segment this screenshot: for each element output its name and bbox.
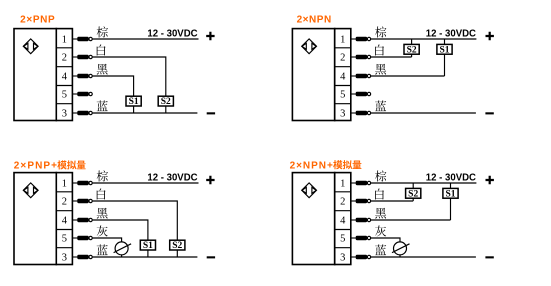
PNP2A proximity-sensor diamond symbol [23, 183, 38, 198]
PNP2A wire label white 白 [97, 189, 106, 200]
PNP2 wire label blue 蓝 [97, 100, 108, 111]
svg-text:S2: S2 [408, 189, 418, 199]
NPN2A pin 2 terminal stub [351, 199, 371, 203]
PNP2A pin cell divider 1 [56, 191, 72, 193]
NPN2A blue wire (pin 3 to −) [371, 256, 476, 258]
PNP2 brown wire (pin 1 to +) [93, 38, 199, 40]
NPN2A analog symbol to blue rail wire [399, 255, 401, 257]
NPN2A pin cell divider 1 [335, 191, 351, 193]
PNP2A wire label black 黑 [97, 208, 108, 219]
NPN2 wire label white 白 [375, 45, 384, 56]
svg-text:1: 1 [62, 179, 67, 190]
PNP2A pin 1 terminal stub [72, 181, 92, 185]
NPN2A load S1 box [443, 188, 458, 199]
NPN2A white wire (pin 2 to S2) [371, 200, 413, 202]
PNP2A wire label brown 棕 [97, 170, 108, 181]
svg-text:S1: S1 [143, 241, 153, 251]
NPN2 supply − terminal [485, 112, 493, 114]
PNP2 pin cell divider 2 [56, 66, 72, 68]
PNP2 black wire (pin 4 to S1) [93, 76, 134, 96]
svg-text:5: 5 [340, 90, 345, 101]
NPN2 sensor body outline [292, 29, 334, 121]
svg-text:4: 4 [62, 216, 68, 227]
NPN2 black wire (pin 4 to S1) [371, 75, 445, 77]
PNP2A black wire (pin 4 to S1) [93, 220, 148, 240]
NPN2A wire label black 黑 [375, 208, 386, 219]
svg-text:1: 1 [340, 35, 345, 46]
svg-text:S1: S1 [129, 97, 139, 107]
PNP2A analog output symbol [114, 242, 132, 255]
svg-text:2: 2 [340, 197, 345, 208]
svg-text:S1: S1 [445, 189, 455, 199]
PNP2 load S1 box [126, 96, 141, 107]
PNP2 S2 to blue rail wire [165, 106, 167, 113]
PNP2A wire label gray 灰 [97, 226, 108, 237]
NPN2A + rail to S2 wire [412, 183, 414, 188]
NPN2 load S2 box [404, 44, 419, 55]
PNP2 pin cell divider 3 [56, 85, 72, 87]
NPN2A pin cell divider 4 [335, 247, 351, 249]
NPN2A S2 to white wire [412, 198, 414, 201]
svg-text:4: 4 [62, 72, 68, 83]
PNP2A load S2 box [170, 240, 185, 251]
svg-text:1: 1 [62, 35, 67, 46]
PNP2A load S1 box [140, 240, 155, 251]
svg-text:12 - 30VDC: 12 - 30VDC [426, 172, 476, 183]
NPN2A supply + terminal [486, 176, 494, 184]
NPN2 S2 to white wire [411, 54, 413, 57]
NPN2 pin 4 terminal stub [351, 74, 371, 78]
PNP2A wire label blue 蓝 [97, 244, 108, 255]
NPN2 S1 to black wire [444, 54, 446, 76]
svg-text:4: 4 [340, 216, 346, 227]
NPN2 pin 3 terminal stub [351, 111, 371, 115]
PNP2 proximity-sensor diamond symbol [23, 39, 38, 54]
NPN2A wire label blue 蓝 [375, 244, 386, 255]
NPN2 pin 5 terminal stub [351, 92, 371, 96]
PNP2 wire label brown 棕 [97, 26, 108, 37]
NPN2 pin cell divider 4 [335, 103, 351, 105]
PNP2A gray wire (pin 5 to analog output) [93, 238, 122, 242]
NPN2 brown wire (pin 1 to +) [371, 38, 476, 40]
NPN2 wire label blue 蓝 [375, 100, 386, 111]
PNP2A white wire (pin 2 to S2) [93, 201, 178, 240]
NPN2A sensor body outline [292, 173, 334, 265]
PNP2 sensor body outline [14, 29, 56, 121]
svg-text:5: 5 [62, 234, 67, 245]
NPN2 pin 2 terminal stub [351, 55, 371, 59]
svg-text:2×NPN+: 2×NPN+ [290, 160, 333, 171]
NPN2A pin 4 terminal stub [351, 218, 371, 222]
svg-text:3: 3 [62, 109, 67, 120]
NPN2 wire label black 黑 [375, 64, 386, 75]
PNP2 pin 3 terminal stub [72, 111, 92, 115]
NPN2A brown wire (pin 1 to +) [371, 182, 476, 184]
NPN2A title 模拟量 (analog) [333, 160, 361, 169]
svg-text:12 - 30VDC: 12 - 30VDC [426, 28, 476, 39]
NPN2 + rail to S1 wire [444, 39, 446, 44]
NPN2A pin 5 terminal stub [351, 236, 371, 240]
svg-text:S2: S2 [407, 45, 417, 55]
svg-text:1: 1 [340, 179, 345, 190]
PNP2 wire label white 白 [97, 45, 106, 56]
NPN2A wire label white 白 [375, 189, 384, 200]
NPN2 pin cell divider 1 [335, 47, 351, 49]
PNP2A pin 2 terminal stub [72, 199, 92, 203]
NPN2A load S2 box [406, 188, 421, 199]
svg-text:2×PNP: 2×PNP [20, 15, 55, 26]
PNP2A supply − terminal [207, 256, 215, 258]
PNP2A pin cell divider 2 [56, 210, 72, 212]
svg-text:12 - 30VDC: 12 - 30VDC [147, 28, 197, 39]
PNP2 wire label black 黑 [97, 64, 108, 75]
NPN2A + rail to S1 wire [450, 183, 452, 188]
svg-text:12 - 30VDC: 12 - 30VDC [147, 172, 197, 183]
PNP2 supply + terminal [206, 32, 214, 40]
NPN2A wire label brown 棕 [375, 170, 386, 181]
PNP2A sensor body outline [14, 173, 56, 265]
PNP2 pin terminal strip [56, 29, 72, 121]
PNP2 pin cell divider 4 [56, 103, 72, 105]
NPN2 proximity-sensor diamond symbol [302, 39, 317, 54]
svg-text:2×NPN: 2×NPN [297, 15, 332, 26]
PNP2 load S2 box [158, 96, 173, 107]
NPN2 wire label brown 棕 [375, 26, 386, 37]
PNP2 pin 4 terminal stub [72, 74, 92, 78]
NPN2 white wire (pin 2 to S2) [371, 56, 412, 58]
PNP2A pin cell divider 3 [56, 229, 72, 231]
svg-text:S1: S1 [439, 45, 449, 55]
svg-text:S2: S2 [172, 241, 182, 251]
svg-text:4: 4 [340, 72, 346, 83]
PNP2A brown wire (pin 1 to +) [93, 182, 199, 184]
PNP2A pin 5 terminal stub [72, 236, 92, 240]
NPN2A proximity-sensor diamond symbol [302, 183, 317, 198]
PNP2A pin 3 terminal stub [72, 255, 92, 259]
svg-text:2: 2 [340, 53, 345, 64]
NPN2 load S1 box [437, 44, 452, 55]
PNP2A blue wire (pin 3 to −) [93, 256, 198, 258]
NPN2 + rail to S2 wire [411, 39, 413, 44]
svg-text:5: 5 [62, 90, 67, 101]
NPN2A pin cell divider 3 [335, 229, 351, 231]
NPN2A pin cell divider 2 [335, 210, 351, 212]
NPN2A pin 1 terminal stub [351, 181, 371, 185]
NPN2A black wire (pin 4 to S1) [371, 219, 451, 221]
svg-text:S2: S2 [161, 97, 171, 107]
NPN2A gray wire (pin 5 to analog output) [371, 238, 400, 242]
NPN2A pin terminal strip [335, 173, 351, 265]
NPN2 pin cell divider 2 [335, 66, 351, 68]
NPN2 pin cell divider 3 [335, 85, 351, 87]
NPN2A supply − terminal [485, 256, 493, 258]
svg-text:2×PNP+: 2×PNP+ [14, 161, 57, 172]
svg-text:2: 2 [62, 197, 67, 208]
PNP2A S1 to blue rail wire [147, 250, 149, 257]
svg-text:3: 3 [340, 253, 345, 264]
NPN2 supply + terminal [486, 32, 494, 40]
svg-text:2: 2 [62, 53, 67, 64]
PNP2A pin terminal strip [56, 173, 72, 265]
PNP2 white wire (pin 2 to S2) [93, 57, 166, 96]
PNP2A supply + terminal [206, 176, 214, 184]
NPN2 blue wire (pin 3 to −) [371, 112, 476, 114]
PNP2A pin cell divider 4 [56, 247, 72, 249]
PNP2 pin 1 terminal stub [72, 37, 92, 41]
NPN2A analog output symbol [392, 242, 410, 255]
NPN2A S1 to black wire [450, 198, 452, 220]
NPN2 pin terminal strip [335, 29, 351, 121]
PNP2 pin 2 terminal stub [72, 55, 92, 59]
PNP2 pin 5 terminal stub [72, 92, 92, 96]
PNP2 blue wire (pin 3 to −) [93, 112, 198, 114]
PNP2A pin 4 terminal stub [72, 218, 92, 222]
PNP2 S1 to blue rail wire [133, 106, 135, 113]
PNP2 pin cell divider 1 [56, 47, 72, 49]
NPN2A pin 3 terminal stub [351, 255, 371, 259]
PNP2A S2 to blue rail wire [176, 250, 178, 257]
PNP2A analog symbol to blue rail wire [121, 255, 123, 257]
svg-text:5: 5 [340, 234, 345, 245]
NPN2 pin 1 terminal stub [351, 37, 371, 41]
svg-text:3: 3 [340, 109, 345, 120]
NPN2A wire label gray 灰 [375, 226, 386, 237]
PNP2 supply − terminal [207, 112, 215, 114]
PNP2A title 模拟量 (analog) [57, 160, 85, 169]
svg-text:3: 3 [62, 253, 67, 264]
